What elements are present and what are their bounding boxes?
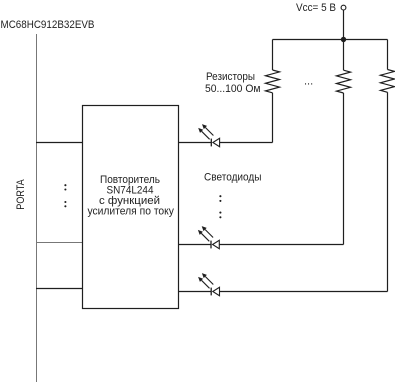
Vcc terminal circle: [341, 5, 346, 10]
wire PORTA to buffer input 3: [36, 288, 83, 290]
PORTA bus line: [36, 34, 38, 382]
resistor R2: [337, 40, 351, 245]
wire LED2 to R2: [219, 244, 343, 246]
svg-text:усилителя по току: усилителя по току: [87, 205, 174, 217]
wire buffer output 3: [179, 291, 212, 293]
LED HL1: [198, 124, 219, 147]
LED HL3: [198, 273, 219, 296]
ellipsis dots left of buffer: [64, 184, 66, 207]
wire LED1 to R1: [220, 142, 273, 144]
resistor R1: [266, 40, 280, 143]
wire Vcc rail: [273, 39, 388, 41]
svg-text:Светодиоды: Светодиоды: [204, 172, 262, 184]
resistor R3: [381, 40, 395, 292]
svg-text:Vcc= 5 В: Vcc= 5 В: [296, 2, 336, 14]
ellipsis dots below Светодиоды: [219, 195, 221, 218]
buffer box U1: [83, 106, 179, 309]
LED HL2: [198, 226, 219, 249]
wire buffer output 1: [179, 142, 212, 144]
wire buffer output 2: [179, 244, 212, 246]
svg-text:...: ...: [304, 76, 313, 88]
svg-text:MC68HC912B32EVB: MC68HC912B32EVB: [1, 19, 95, 31]
wire Vcc stem: [343, 10, 345, 40]
wire LED3 to R3: [220, 291, 388, 293]
svg-text:Резисторы: Резисторы: [206, 71, 255, 83]
wire PORTA to buffer input 1: [36, 142, 83, 144]
svg-text:50...100 Ом: 50...100 Ом: [205, 83, 261, 95]
svg-text:PORTA: PORTA: [15, 179, 27, 210]
junction dot: [341, 37, 346, 42]
wire PORTA to buffer input 2: [36, 242, 83, 244]
